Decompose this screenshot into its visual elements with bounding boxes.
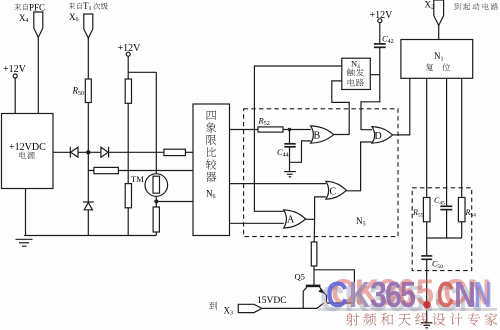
wire junction down to zener <box>87 152 89 235</box>
wire C42 down to gate D upper input <box>361 47 380 129</box>
svg-text:C: C <box>437 274 454 315</box>
ground (C50) <box>421 323 433 328</box>
label 到起动电路 <box>454 3 498 10</box>
wire X3 to Q5 emitter <box>262 303 324 308</box>
wire comparator out2 to gate C upper input <box>230 183 326 185</box>
svg-text:PFC: PFC <box>29 3 45 13</box>
thermistor TM <box>131 174 168 197</box>
wire gate D output to reset box <box>393 78 410 135</box>
junction dot (TM output node) <box>154 200 158 204</box>
dashed box (RC network) <box>412 188 472 271</box>
watermark red text layer <box>331 272 491 313</box>
power supply box +12VDC 电源 <box>2 114 54 189</box>
svg-text:5: 5 <box>400 274 416 315</box>
capacitor C45 <box>434 196 452 238</box>
capacitor C50 <box>421 238 443 270</box>
wire +12V middle down <box>127 56 129 235</box>
logic gate B <box>311 126 334 143</box>
connector X4 <box>19 12 43 38</box>
wire X2 to reset box <box>438 26 440 40</box>
wire TM node to comparator <box>156 201 193 203</box>
svg-text:C: C <box>330 187 337 198</box>
reset box N1 复位 <box>401 40 473 79</box>
resistor (series, comparator input) <box>164 149 186 155</box>
svg-text:15VDC: 15VDC <box>257 296 287 306</box>
wire reset box to R55 <box>426 78 428 197</box>
transistor Q5 <box>295 272 327 309</box>
ground symbol <box>16 239 33 246</box>
junction dot (R50 / diode node) <box>86 150 90 154</box>
wire TM line vertical <box>155 72 157 235</box>
watermark gray shadow text <box>320 278 483 319</box>
wire power box to comparator input (node at y152) <box>53 151 164 153</box>
diode D1 (cathode left) <box>70 147 78 158</box>
trigger circuit box N4 触发电路 <box>342 58 371 89</box>
svg-text:N: N <box>454 274 476 315</box>
zener diode (pointing up) <box>83 202 94 210</box>
+12V terminal (left) <box>3 64 27 78</box>
wire node down to resistor <box>313 219 315 242</box>
+12V terminal (middle) <box>118 43 142 56</box>
wire C50 to ground <box>426 259 428 322</box>
resistor (y170 branch) <box>94 167 119 173</box>
junction dot (R52/C44 node) <box>288 128 292 132</box>
capacitor C42 <box>374 34 394 48</box>
watermark gray band <box>318 308 497 311</box>
dashed box N5 (gate array) <box>244 109 398 237</box>
svg-text:N: N <box>474 274 492 315</box>
wire second comparator input (y170) <box>88 170 193 172</box>
wire R54 bottom <box>461 222 463 238</box>
ground bus wire <box>24 235 156 237</box>
label 到X3 <box>209 302 233 317</box>
logic gate D <box>372 127 393 144</box>
wire +12V to C42 <box>379 23 381 44</box>
wire RC internal bus <box>427 237 462 239</box>
svg-text:+12V: +12V <box>3 64 27 75</box>
resistor R55 <box>412 198 430 222</box>
resistor (below TM) <box>153 207 159 232</box>
wire branch +12V to TM line <box>128 71 156 73</box>
wire node up to gate C lower input <box>315 197 326 219</box>
wire trigger box right to C42 node <box>370 74 380 76</box>
resistor R50 <box>72 79 92 103</box>
resistor (middle lower) <box>125 184 131 208</box>
wire R55 bottom <box>426 222 428 238</box>
wire R50 to diode junction <box>87 103 89 153</box>
svg-text:Q5: Q5 <box>295 272 305 282</box>
logic gate C <box>326 181 347 199</box>
label 来自T1次级 <box>68 1 108 12</box>
svg-text:TM: TM <box>131 174 144 184</box>
capacitor C44 <box>277 130 296 163</box>
wire C44 node to gate B lower input <box>290 141 311 162</box>
connector X6 <box>69 12 93 38</box>
wire resistor to Q5 collector <box>313 266 315 285</box>
connector X3 <box>238 304 262 312</box>
svg-text:D: D <box>375 131 382 142</box>
op-amp box N6 four-quadrant comparator <box>193 104 230 236</box>
wire resistor to comparator <box>185 151 193 153</box>
resistor (gate A output pull) <box>311 242 317 266</box>
logic gate A <box>284 210 306 228</box>
svg-text:A: A <box>287 215 295 226</box>
wire power box bottom to ground bus <box>25 189 27 236</box>
wire gate A output to node <box>306 218 315 220</box>
wire gate B output zigzag to trigger box <box>332 81 349 135</box>
svg-text:B: B <box>314 131 321 142</box>
watermark main text layer <box>326 274 492 315</box>
svg-text:K: K <box>349 274 370 315</box>
resistor (middle +12V upper) <box>125 79 131 103</box>
wire X6 to R50 <box>87 38 89 79</box>
connector X2 <box>425 0 444 26</box>
watermark slogan 射频和天线设计专家 <box>346 313 497 326</box>
svg-text:C: C <box>326 274 348 315</box>
diode D2 (cathode right) <box>101 147 109 158</box>
resistor R52 <box>258 116 284 133</box>
label 来自PFC <box>14 3 45 13</box>
wire comparator out3 to gate A lower input <box>230 222 284 224</box>
+12V terminal (top right) <box>370 10 394 23</box>
wire branch to right drop <box>314 270 354 303</box>
wire reset box to C45 <box>446 78 448 206</box>
wire gate C output to gate D lower input <box>346 142 372 191</box>
resistor R54 <box>458 198 476 222</box>
wire reset box to R54 <box>461 78 463 197</box>
wire X4 to power supply box <box>37 38 39 114</box>
ground (C44) <box>284 162 296 177</box>
svg-text:+12VDC: +12VDC <box>9 142 46 153</box>
wire +12V to power supply box <box>14 78 16 114</box>
wire trigger box left to gate A upper input <box>254 66 341 211</box>
wire comparator out1 to R52 <box>230 129 311 131</box>
